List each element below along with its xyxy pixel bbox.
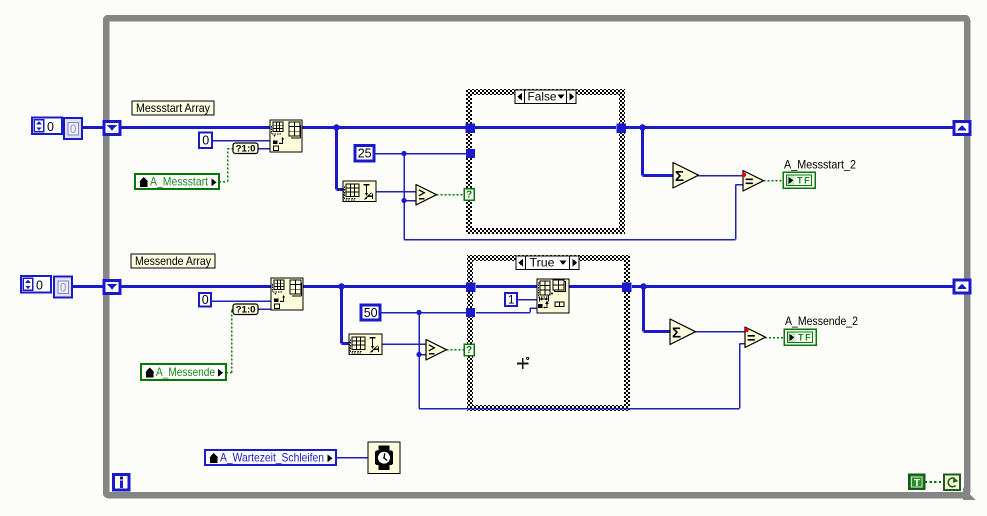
svg-text:A_Messende: A_Messende	[156, 366, 215, 379]
svg-text:Σ: Σ	[675, 168, 684, 185]
svg-text:0: 0	[202, 134, 209, 148]
svg-text:Messstart Array: Messstart Array	[136, 101, 210, 115]
svg-text:50: 50	[364, 306, 378, 320]
svg-text:0: 0	[202, 293, 209, 307]
svg-text:A_Messstart_2: A_Messstart_2	[784, 158, 856, 172]
svg-text:25: 25	[358, 147, 372, 161]
svg-text:True: True	[530, 256, 555, 270]
svg-text:1: 1	[508, 293, 515, 307]
svg-text:A_Messende_2: A_Messende_2	[785, 314, 858, 328]
svg-text:=: =	[745, 174, 753, 190]
svg-text:False: False	[528, 90, 557, 104]
svg-text:Σ: Σ	[672, 325, 681, 342]
svg-text:A_Wartezeit_Schleifen: A_Wartezeit_Schleifen	[220, 451, 324, 464]
svg-text:=: =	[747, 331, 755, 347]
svg-text:0: 0	[47, 120, 54, 134]
svg-text:T: T	[914, 478, 920, 489]
svg-text:0: 0	[70, 122, 77, 136]
svg-text:?1:0: ?1:0	[236, 143, 256, 153]
svg-text:TF: TF	[797, 175, 811, 185]
svg-text:?: ?	[466, 190, 472, 201]
svg-text:?: ?	[466, 345, 472, 356]
svg-text:Messende Array: Messende Array	[135, 254, 211, 268]
svg-text:A_Messstart: A_Messstart	[150, 175, 209, 188]
